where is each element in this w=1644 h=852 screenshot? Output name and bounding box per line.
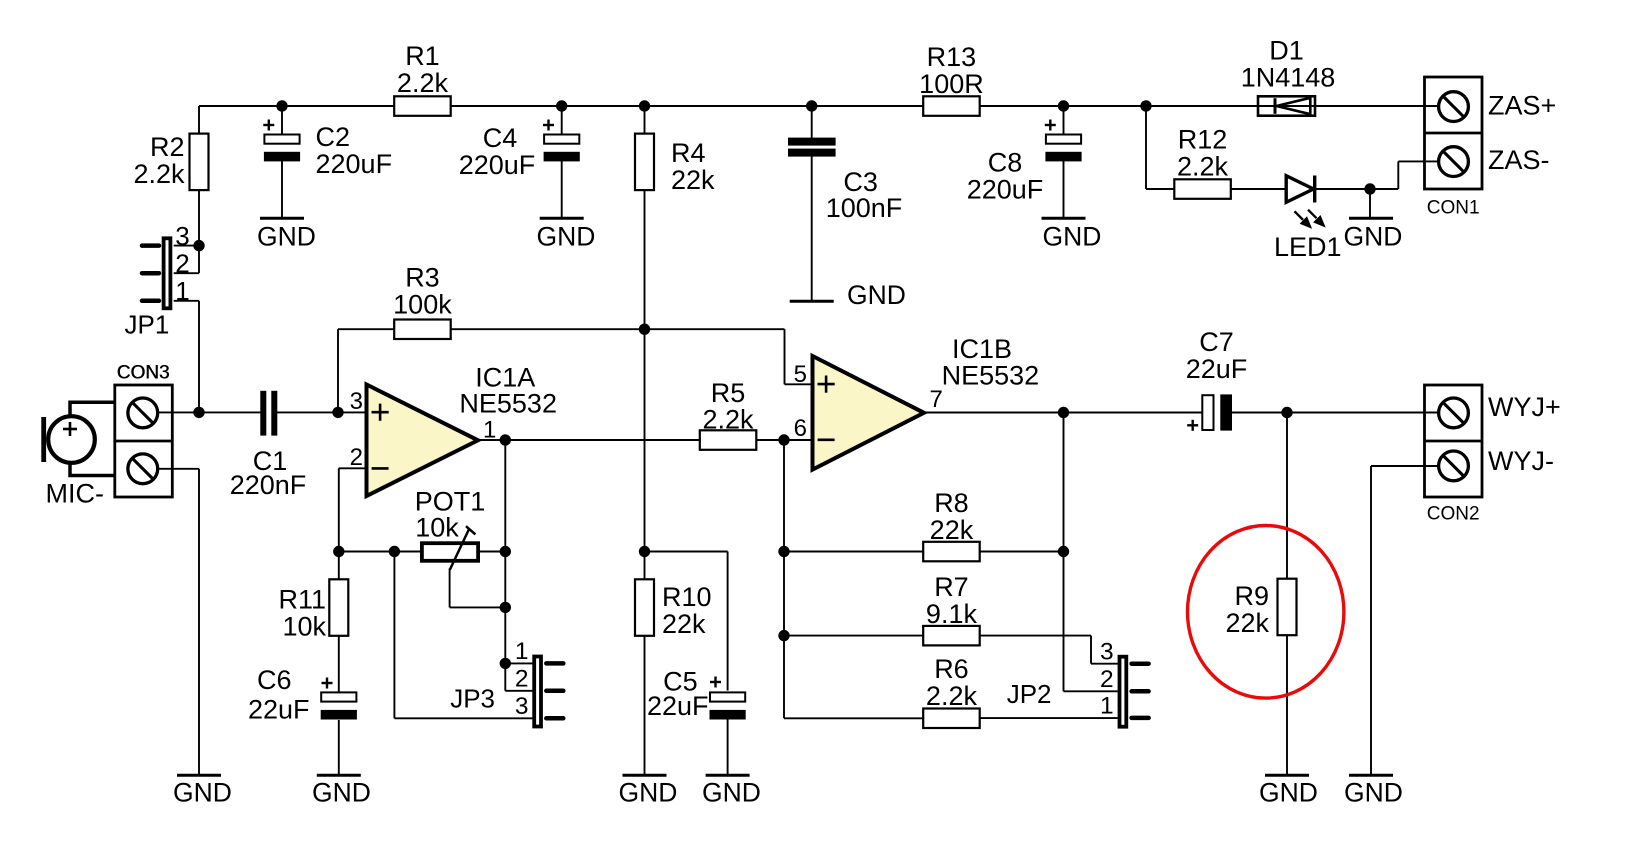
svg-text:CON3: CON3	[117, 363, 170, 384]
ground (WYJ-)	[1344, 775, 1403, 807]
resistor R10	[635, 579, 712, 639]
svg-text:R3: R3	[405, 263, 440, 293]
svg-text:R12: R12	[1178, 125, 1228, 155]
capacitor C7	[1186, 327, 1248, 431]
resistor R4	[635, 134, 715, 195]
junction IC1A pin3 node	[332, 407, 343, 418]
wire: leg to JP3 pin3	[394, 717, 532, 719]
svg-text:100nF: 100nF	[826, 193, 903, 223]
pin header JP3	[450, 638, 563, 727]
svg-text:WYJ-: WYJ-	[1488, 446, 1554, 476]
wire: JP1 pin3 node down to pin2	[198, 246, 200, 274]
svg-text:220uF: 220uF	[459, 150, 536, 180]
terminal block CON3	[115, 363, 173, 498]
junction D1-R12 node	[1140, 100, 1151, 111]
wire: corner down to C5	[727, 552, 729, 691]
ground (LED1 node)	[1344, 218, 1403, 251]
svg-text:22uF: 22uF	[647, 691, 709, 721]
capacitor C5	[647, 667, 746, 722]
wire: C8 stem from rail	[1063, 106, 1065, 135]
wire: C7 to WYJ+ node	[1232, 412, 1288, 414]
wire: IC1A pin2 down to gain net	[338, 468, 340, 551]
svg-text:220nF: 220nF	[230, 470, 307, 500]
junction mic input node	[193, 407, 204, 418]
svg-text:C8: C8	[988, 148, 1023, 178]
svg-text:1: 1	[1100, 693, 1114, 720]
highlight ellipse around R9	[1188, 526, 1344, 699]
resistor R3	[393, 263, 452, 340]
svg-text:R8: R8	[934, 488, 969, 518]
junction output/C7 left? no - IC1B out at C7 right	[1281, 407, 1292, 418]
svg-text:CON1: CON1	[1427, 198, 1480, 219]
svg-text:GND: GND	[173, 778, 232, 808]
svg-text:JP1: JP1	[125, 310, 170, 340]
wire: IC1B output to C7	[924, 412, 1203, 414]
wire: divider node down to R10/C5 node	[644, 329, 646, 551]
pin header JP1	[125, 221, 190, 340]
junction JP3 pin1 node	[500, 658, 511, 669]
wire: to JP2 pin2	[1064, 690, 1118, 692]
resistor R8	[923, 488, 980, 561]
terminal block CON2	[1425, 385, 1561, 525]
svg-text:C6: C6	[257, 665, 292, 695]
svg-text:R13: R13	[927, 42, 977, 72]
resistor R7	[923, 572, 980, 645]
wire: R12 to LED1 anode	[1231, 188, 1287, 190]
wire: C2 to ground	[281, 161, 283, 218]
capacitor C2	[263, 120, 392, 180]
wire: R2 top drop from rail	[198, 106, 200, 135]
svg-text:R2: R2	[150, 132, 185, 162]
wire: C1 to IC1A pin3	[277, 411, 367, 413]
wire: R8 right lead	[980, 551, 1064, 553]
junction R4/rail	[639, 100, 650, 111]
wire: riser to CON1 ZAS- terminal	[1398, 160, 1440, 162]
ground (C6)	[312, 775, 371, 807]
svg-text:10k: 10k	[415, 513, 459, 543]
svg-text:3: 3	[515, 693, 529, 720]
resistor R5	[700, 378, 757, 450]
svg-text:2.2k: 2.2k	[397, 68, 449, 98]
svg-text:2: 2	[1100, 666, 1114, 693]
wire: IC1A output lead	[478, 439, 505, 441]
svg-text:GND: GND	[1043, 222, 1102, 252]
junction LED1 cathode node	[1364, 183, 1375, 194]
svg-text:5: 5	[794, 361, 807, 388]
svg-text:1N4148: 1N4148	[1241, 63, 1336, 93]
wire: JP1 pin3 to bias node	[174, 245, 199, 247]
capacitor C8	[967, 120, 1082, 205]
wire: WYJ+ node to CON2	[1287, 412, 1440, 414]
svg-text:ZAS-: ZAS-	[1488, 145, 1550, 175]
pin header JP2	[1007, 639, 1149, 727]
svg-text:9.1k: 9.1k	[926, 599, 978, 629]
resistor R11	[278, 579, 348, 641]
wire: R5 to IC1B pin6	[757, 439, 813, 441]
svg-text:1: 1	[175, 276, 189, 306]
wire: gain net to POT1 left	[339, 551, 422, 553]
svg-text:GND: GND	[619, 778, 678, 808]
wire: wiper to node	[450, 606, 506, 608]
junction divider/R10/C5 node	[639, 546, 650, 557]
ground (C4)	[537, 218, 596, 251]
op-amp IC1B (NE5532)	[794, 334, 1040, 470]
wire: CON3 lower terminal down to ground	[198, 469, 200, 775]
svg-text:3: 3	[350, 388, 363, 415]
svg-text:22uF: 22uF	[248, 695, 310, 725]
capacitor C4	[459, 120, 580, 181]
junction C4/rail	[556, 100, 567, 111]
svg-text:C2: C2	[316, 122, 351, 152]
wire: POT1 node down to JP3	[504, 552, 506, 691]
svg-text:2: 2	[350, 444, 363, 471]
svg-text:C4: C4	[483, 123, 518, 153]
wire: LED junction to ground	[1369, 189, 1371, 218]
wire: R6 right lead to JP2 pin1	[980, 717, 1118, 719]
wire: node to R12	[1146, 188, 1175, 190]
svg-text:220uF: 220uF	[316, 149, 393, 179]
wire: node to R10 top	[644, 552, 646, 580]
capacitor C3	[788, 138, 902, 223]
wire: pin6 node down R6/R7/R8 left rail	[783, 440, 785, 718]
wire: JP1 pin2 stub wire	[174, 272, 199, 274]
svg-text:2: 2	[515, 665, 529, 692]
capacitor C6	[248, 665, 357, 725]
wire: feedback rail from output	[1063, 413, 1065, 692]
junction R8 left	[778, 546, 789, 557]
wire: D1/R12 node drop	[1145, 106, 1147, 189]
wire: C4 stem from rail	[561, 106, 563, 135]
ground (C8)	[1042, 218, 1102, 251]
ground (C2)	[257, 218, 316, 251]
wire: R3 right lead to bend	[451, 328, 785, 330]
svg-text:6: 6	[794, 415, 807, 442]
wire: R11 bottom to C6	[338, 636, 340, 693]
svg-text:GND: GND	[257, 222, 316, 252]
svg-text:ZAS+: ZAS+	[1488, 91, 1556, 121]
ground (R9)	[1259, 775, 1318, 807]
svg-text:22uF: 22uF	[1186, 354, 1248, 384]
junction R5/IC1B pin6 node	[778, 434, 789, 445]
wire: divider node to C5 corner	[645, 551, 728, 553]
terminal block CON1	[1425, 77, 1557, 219]
capacitor C1	[230, 391, 307, 500]
wire: pin3 node up to R3	[337, 329, 339, 412]
svg-text:10k: 10k	[282, 612, 326, 642]
svg-text:IC1B: IC1B	[952, 334, 1012, 364]
wire: bend down to IC1B pin5	[784, 329, 786, 384]
wire: junction to ZAS- riser	[1370, 188, 1398, 190]
resistor R2	[133, 132, 208, 190]
diode D1	[1241, 36, 1336, 116]
CON3 label	[117, 363, 170, 384]
ground (R10)	[619, 775, 678, 807]
junction JP1 pin3 node	[193, 240, 204, 251]
wire: R9 bottom to ground	[1286, 636, 1288, 776]
svg-text:2.2k: 2.2k	[926, 681, 978, 711]
wire: R7 left lead	[784, 635, 924, 637]
svg-text:3: 3	[175, 221, 189, 251]
svg-text:1: 1	[515, 638, 529, 665]
wire: +supply top rail	[199, 105, 1439, 107]
wire: R3 left lead	[338, 328, 395, 330]
resistor R9	[1225, 579, 1296, 638]
LED LED1	[1274, 176, 1342, 263]
svg-text:LED1: LED1	[1274, 232, 1342, 262]
junction C2/rail	[276, 100, 287, 111]
resistor R6	[923, 654, 980, 728]
resistor R13	[919, 42, 984, 116]
wire: JP3 pin1 stub wire	[505, 662, 532, 664]
resistor R1	[394, 41, 451, 116]
wire: C3 to ground	[811, 156, 813, 302]
ground (MIC)	[173, 775, 232, 807]
svg-text:2.2k: 2.2k	[133, 159, 185, 189]
junction divider node A	[639, 324, 650, 335]
op-amp IC1A (NE5532)	[350, 363, 557, 497]
wire: C4 to ground	[561, 161, 563, 218]
svg-text:GND: GND	[312, 778, 371, 808]
wire: C2 stem from rail	[281, 106, 283, 135]
svg-text:22k: 22k	[930, 515, 974, 545]
svg-text:1: 1	[483, 417, 496, 444]
junction wiper node	[500, 602, 511, 613]
svg-text:R7: R7	[934, 572, 969, 602]
svg-text:WYJ+: WYJ+	[1488, 392, 1561, 422]
wire: IC1A pin2 lead	[339, 467, 367, 469]
svg-text:NE5532: NE5532	[942, 361, 1040, 391]
resistor R12	[1174, 125, 1231, 199]
wire: R8 left lead	[784, 551, 924, 553]
wire: R6 left lead	[784, 717, 924, 719]
microphone MIC-	[41, 402, 115, 508]
svg-text:2.2k: 2.2k	[1177, 151, 1229, 181]
svg-text:R11: R11	[278, 585, 326, 615]
svg-text:22k: 22k	[671, 165, 715, 195]
svg-text:GND: GND	[1344, 778, 1403, 808]
wire: JP1 pin1 down to mic input node	[198, 301, 200, 413]
wire: input node to C1	[199, 411, 261, 413]
wire: CON2 WYJ- lead	[1371, 465, 1440, 467]
wire: LED1 cathode to junction	[1315, 188, 1370, 190]
svg-text:R9: R9	[1234, 581, 1269, 611]
wire: CON3 upper terminal to input node	[158, 411, 199, 413]
junction POT1 right node	[500, 546, 511, 557]
svg-text:GND: GND	[1344, 222, 1403, 252]
svg-text:R1: R1	[405, 41, 440, 71]
wire: POT1 left down leg	[393, 552, 395, 719]
wire: POT1 wiper drop	[449, 569, 451, 608]
junction IC1A output node	[500, 434, 511, 445]
wire: WYJ- down to ground	[1370, 466, 1372, 775]
junction R8 right	[1058, 546, 1069, 557]
wire: bend to JP2 pin3	[1091, 663, 1118, 665]
svg-text:100k: 100k	[393, 290, 452, 320]
svg-text:JP2: JP2	[1007, 679, 1052, 709]
junction POT1 left leg	[389, 546, 400, 557]
svg-text:CON2: CON2	[1427, 504, 1480, 525]
junction C8/rail	[1058, 100, 1069, 111]
wire: R4 top drop from rail	[644, 106, 646, 135]
wire: R2 bottom to JP1 pin3	[198, 190, 200, 246]
wire: C3 stem from rail	[811, 106, 813, 139]
svg-text:22k: 22k	[1225, 608, 1269, 638]
wire: CON3 lower terminal wire	[158, 468, 199, 470]
svg-text:220uF: 220uF	[967, 175, 1044, 205]
svg-text:R10: R10	[662, 582, 712, 612]
wire: R10 bottom to ground	[644, 636, 646, 775]
potentiometer POT1	[415, 487, 486, 570]
svg-text:C7: C7	[1199, 327, 1234, 357]
junction output feedback node	[1058, 407, 1069, 418]
svg-text:2.2k: 2.2k	[703, 404, 755, 434]
svg-text:R6: R6	[934, 654, 969, 684]
wire: R4 bottom to divider node	[644, 190, 646, 330]
svg-text:3: 3	[1100, 639, 1114, 666]
wire: C6 to ground	[338, 720, 340, 775]
wire: output to R5	[505, 439, 700, 441]
svg-text:D1: D1	[1269, 36, 1304, 66]
svg-text:GND: GND	[702, 778, 761, 808]
wire: JP1 pin1 stub wire	[174, 300, 199, 302]
ground (C3)	[790, 280, 906, 310]
wire: R7 right lead	[980, 635, 1091, 637]
wire: R7 bend down	[1090, 636, 1092, 664]
svg-text:R4: R4	[671, 138, 706, 168]
svg-text:GND: GND	[1259, 778, 1318, 808]
svg-text:100R: 100R	[919, 69, 984, 99]
junction R7 left	[778, 630, 789, 641]
svg-text:2: 2	[175, 249, 189, 279]
junction C3/rail	[806, 100, 817, 111]
wire: output node down to POT1 right	[504, 440, 506, 552]
junction gain net at R11	[333, 546, 344, 557]
wire: POT1 right lead	[478, 551, 505, 553]
wire: C8 to ground	[1063, 161, 1065, 218]
svg-text:NE5532: NE5532	[459, 389, 557, 419]
wire: R11 top lead	[338, 552, 340, 580]
svg-text:22k: 22k	[662, 609, 706, 639]
svg-text:MIC-: MIC-	[46, 479, 104, 509]
ground (C5)	[702, 775, 761, 807]
svg-text:JP3: JP3	[450, 684, 495, 714]
svg-text:GND: GND	[537, 222, 596, 252]
wire: ZAS- riser	[1397, 161, 1399, 189]
wire: WYJ+ node down to R9	[1286, 413, 1288, 579]
wire: into IC1B pin5	[785, 383, 813, 385]
wire: JP3 pin2 stub wire	[505, 690, 532, 692]
wire: C5 to ground	[727, 718, 729, 775]
svg-text:GND: GND	[847, 280, 906, 310]
